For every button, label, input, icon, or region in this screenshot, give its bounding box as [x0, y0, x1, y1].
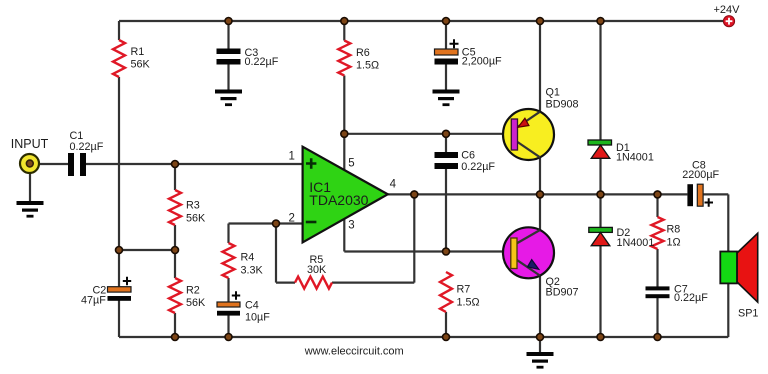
node top rail / R6	[341, 18, 348, 25]
label R6 value	[356, 47, 379, 72]
label R4 value	[241, 252, 264, 277]
wire Q1 base line	[344, 133, 511, 135]
wire Q2 collector up	[539, 194, 541, 230]
wire R8 top	[656, 194, 658, 217]
wire speaker column bottom	[727, 283, 729, 337]
resistor R3	[169, 190, 181, 225]
wire R6 bottom	[343, 76, 345, 134]
IC1 plus input sign	[306, 158, 316, 168]
svg-text:SP1: SP1	[738, 308, 758, 320]
svg-text:TDA2030: TDA2030	[309, 192, 368, 208]
node input / R3	[172, 161, 179, 168]
svg-text:3.3K: 3.3K	[241, 265, 264, 277]
svg-text:R3: R3	[186, 200, 200, 212]
wire C6 bottom to pin3 node	[445, 169, 447, 252]
svg-text:BD908: BD908	[546, 99, 579, 111]
wire C2 to bottom rail corner	[118, 300, 120, 337]
svg-text:1.5Ω: 1.5Ω	[356, 60, 379, 72]
label C6 value	[461, 150, 495, 174]
svg-text:2: 2	[289, 213, 295, 225]
wire Q1 collector to output	[539, 157, 541, 194]
node bottom rail / C7	[654, 334, 661, 341]
svg-text:INPUT: INPUT	[11, 137, 49, 151]
wire feedback riser to output	[413, 194, 415, 282]
capacitor C2	[108, 287, 132, 301]
node top rail / D1	[597, 18, 604, 25]
wire Q2 emitter down	[539, 276, 541, 337]
label R2 value	[186, 285, 206, 310]
svg-text:BD907: BD907	[546, 287, 579, 299]
node top rail / C3	[225, 18, 232, 25]
svg-text:C4: C4	[245, 300, 259, 312]
wire R4 to C4	[227, 278, 229, 302]
ground below C3	[215, 90, 242, 107]
label C4 value	[245, 300, 270, 324]
svg-text:www.eleccircuit.com: www.eleccircuit.com	[304, 345, 404, 357]
label C8 plus	[705, 198, 714, 207]
svg-text:R1: R1	[131, 46, 145, 58]
node A R3/R2	[172, 247, 179, 254]
node A R1/C2	[116, 247, 123, 254]
wire C3 to ground	[227, 65, 229, 91]
+24V supply terminal	[723, 16, 734, 27]
wire pin 2 line	[229, 222, 303, 224]
wire bottom ground rail	[119, 336, 728, 338]
wire C1 to pin 1	[86, 163, 303, 165]
label D2	[617, 227, 655, 249]
label C5 value	[462, 47, 502, 68]
label C2 value	[81, 285, 106, 307]
resistor R7	[440, 272, 452, 312]
node C6 top	[443, 130, 450, 137]
wire input line	[30, 163, 68, 165]
label C2 plus	[123, 277, 131, 285]
label D1	[616, 142, 654, 164]
wire D1 to output	[599, 159, 601, 195]
resistor R8	[652, 217, 664, 249]
label R7 value	[457, 284, 480, 309]
node bottom rail / D2	[597, 334, 604, 341]
label R1 value	[131, 46, 151, 71]
svg-text:30K: 30K	[307, 264, 327, 276]
node output / feedback	[411, 191, 418, 198]
label Q1	[546, 87, 579, 111]
speaker SP1	[720, 233, 757, 302]
label C7 value	[674, 284, 708, 305]
capacitor C3	[217, 49, 241, 65]
wire R2 bottom	[174, 313, 176, 337]
wire D2 bottom	[599, 244, 601, 337]
wire R6 top	[343, 21, 345, 41]
label C1 value	[70, 130, 104, 153]
diode D1	[588, 140, 612, 158]
svg-text:3: 3	[348, 219, 354, 231]
node pin3 / C6 / Q2 base	[443, 248, 450, 255]
wire R3 top	[174, 164, 176, 190]
svg-text:56K: 56K	[186, 213, 206, 225]
wire R7 bottom	[445, 312, 447, 337]
resistor R4	[223, 243, 235, 278]
label C4 plus	[232, 291, 240, 299]
svg-text:C6: C6	[461, 150, 475, 162]
node top rail / Q1 emitter	[537, 18, 544, 25]
capacitor C7	[646, 286, 670, 298]
wire R8 to C7	[656, 249, 658, 287]
svg-text:5: 5	[348, 158, 354, 170]
svg-text:2200µF: 2200µF	[682, 169, 719, 181]
node bottom rail / R7	[443, 334, 450, 341]
label Q2	[546, 276, 579, 299]
svg-text:4: 4	[390, 179, 397, 191]
wire pin 3 to Q2 base	[344, 250, 510, 252]
resistor R5	[295, 277, 332, 289]
node output / Q2 collector	[537, 191, 544, 198]
wire D1 column top	[599, 21, 601, 140]
wire R3 bottom to node	[174, 225, 176, 278]
label C5 plus	[450, 39, 459, 48]
diode D2	[589, 227, 613, 245]
wire R4 top	[227, 224, 229, 244]
wire D2 top	[599, 194, 601, 227]
wire C4 to bottom rail	[227, 316, 229, 338]
capacitor C1	[68, 153, 86, 176]
svg-text:56K: 56K	[131, 59, 151, 71]
capacitor C8	[687, 184, 703, 206]
svg-text:R8: R8	[667, 224, 681, 236]
svg-text:R4: R4	[241, 252, 255, 264]
wire node A link	[119, 249, 175, 251]
label C8	[682, 160, 719, 182]
wire pin 5 up	[343, 134, 345, 170]
ground below Q2 emitter	[527, 352, 554, 369]
svg-text:+24V: +24V	[714, 4, 741, 16]
wire Q1 emitter column	[539, 21, 541, 112]
wire C6 top	[445, 134, 447, 152]
node bottom rail / C4	[225, 334, 232, 341]
wire feedback to R5	[276, 282, 295, 284]
label R5 value	[307, 254, 327, 276]
input jack	[20, 154, 39, 173]
resistor R6	[338, 41, 350, 76]
node output / D2	[597, 191, 604, 198]
svg-text:R6: R6	[356, 47, 370, 59]
node bottom rail / R2	[172, 334, 179, 341]
svg-text:10µF: 10µF	[245, 312, 270, 324]
label C3 value	[245, 47, 279, 68]
wire feedback down from pin 2	[275, 224, 277, 283]
svg-text:2,200µF: 2,200µF	[462, 56, 502, 68]
IC1 minus input sign	[306, 221, 317, 224]
node pin2 / R5	[273, 220, 280, 227]
resistor R2	[169, 278, 181, 313]
wire speaker column top	[727, 194, 729, 251]
svg-text:0.22µF: 0.22µF	[674, 292, 708, 304]
svg-text:1N4001: 1N4001	[617, 237, 655, 249]
wire C5 top	[445, 21, 447, 49]
wire output line	[388, 193, 688, 195]
resistor R1	[113, 40, 125, 77]
svg-text:0.22µF: 0.22µF	[70, 141, 104, 153]
svg-text:R7: R7	[457, 284, 471, 296]
wire C5 to ground	[445, 65, 447, 91]
wire top supply rail	[119, 20, 729, 22]
svg-text:1N4001: 1N4001	[616, 152, 654, 164]
wire pin 3 down	[343, 219, 345, 251]
node bottom rail / Q2	[537, 334, 544, 341]
transistor Q2 BD907	[503, 227, 554, 278]
svg-text:1: 1	[289, 151, 295, 163]
wire C7 bottom	[656, 298, 658, 337]
capacitor C4	[217, 302, 240, 316]
wire node A to C2	[118, 250, 120, 287]
node top rail / C5	[443, 18, 450, 25]
node pin5 / R6	[341, 130, 348, 137]
wire C8 to speaker corner	[703, 193, 728, 195]
svg-text:1Ω: 1Ω	[667, 237, 681, 249]
wire jack to ground	[29, 172, 31, 201]
svg-text:47µF: 47µF	[81, 295, 106, 307]
label R3 value	[186, 200, 206, 225]
capacitor C5	[435, 49, 459, 65]
ground below input jack	[17, 201, 44, 218]
svg-text:1.5Ω: 1.5Ω	[457, 297, 480, 309]
ground below C5	[433, 90, 460, 107]
transistor Q1 BD908	[503, 109, 554, 160]
node output / R8	[654, 191, 661, 198]
svg-text:56K: 56K	[186, 297, 206, 309]
svg-text:R2: R2	[186, 285, 200, 297]
op-amp IC1 TDA2030	[303, 147, 388, 243]
svg-text:Q1: Q1	[546, 87, 560, 99]
capacitor C6	[435, 152, 459, 169]
wire R1 column top	[118, 21, 120, 40]
svg-text:0.22µF: 0.22µF	[461, 161, 495, 173]
wire C3 top	[227, 21, 229, 49]
wire Q2 emitter to ground	[539, 337, 541, 352]
wire R1 to node A	[118, 77, 120, 250]
wire R5 to riser	[332, 282, 414, 284]
label R8 value	[667, 224, 681, 249]
svg-text:0.22µF: 0.22µF	[245, 56, 279, 68]
